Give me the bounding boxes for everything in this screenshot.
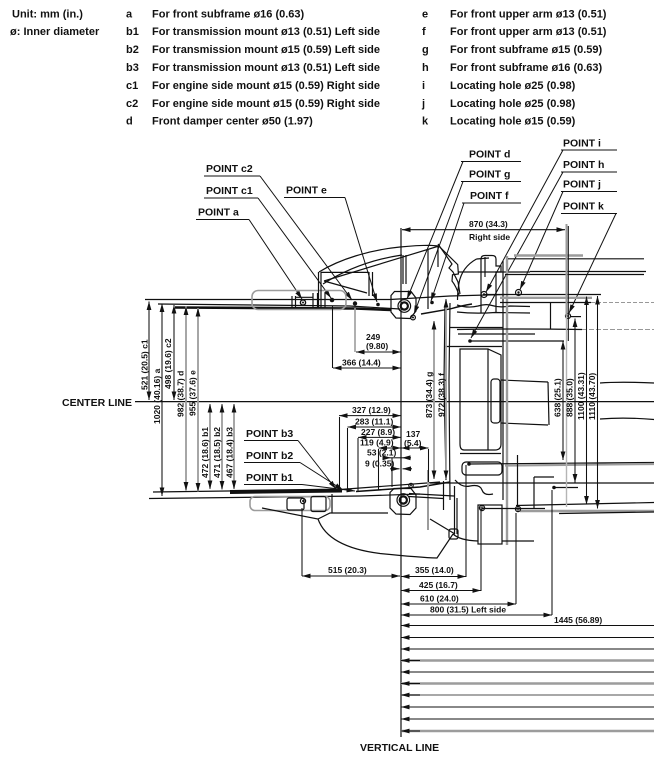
lower structure vertical 2 (456, 498, 458, 534)
dim 9 arrows (390, 468, 400, 470)
lower diagonal strut (430, 519, 455, 534)
firewall narrow box (491, 379, 500, 423)
sill line 2 (530, 271, 646, 273)
sill line 3 (505, 274, 644, 276)
floor trapezoid bottom (501, 423, 548, 425)
vertical-line grid row 9 (401, 718, 654, 720)
svg-text:i: i (422, 80, 425, 92)
lower structure vertical 1 (454, 486, 456, 534)
lower right hole 1 (479, 505, 484, 510)
bottom rail taper (356, 482, 450, 492)
point i circle (481, 292, 487, 298)
point c1 dot (330, 298, 335, 303)
rocker tick gray band (505, 464, 654, 466)
firewall vertical 2 (449, 303, 450, 500)
svg-text:888 (35.0): 888 (35.0) (565, 378, 575, 417)
damper octagon (391, 292, 416, 319)
lower foot rect (449, 529, 458, 539)
svg-text:610 (24.0): 610 (24.0) (420, 594, 459, 604)
floor trapezoid top (501, 380, 548, 382)
firewall outer vertical (502, 261, 504, 500)
svg-text:327 (12.9): 327 (12.9) (352, 405, 391, 415)
label POINT c2 (204, 163, 352, 300)
vertical line (400, 228, 402, 737)
dim 249 line (356, 351, 401, 353)
extension b3 (339, 417, 341, 489)
svg-text:472 (18.6) b1: 472 (18.6) b1 (200, 427, 210, 478)
wheel housing top (477, 258, 490, 259)
extension 119 (378, 449, 380, 490)
label POINT b1 (244, 472, 355, 491)
sill top line (508, 258, 644, 260)
vertical-line grid row 6 gray (401, 682, 654, 684)
firewall inner box (460, 349, 501, 450)
vertical-line grid row 3 (401, 648, 654, 650)
svg-text:For front subframe ø16 (0.63): For front subframe ø16 (0.63) (152, 9, 305, 21)
svg-text:h: h (422, 62, 429, 74)
firewall lower box (462, 462, 502, 475)
body fender inner curve (323, 255, 402, 284)
svg-text:982 (38.7) d: 982 (38.7) d (176, 371, 186, 417)
point j circle (516, 290, 522, 296)
apron line lower (457, 328, 582, 331)
center line (135, 401, 654, 403)
svg-text:e: e (422, 9, 428, 21)
svg-text:(9.80): (9.80) (366, 341, 388, 351)
point k circle (566, 314, 571, 319)
svg-text:POINT c1: POINT c1 (206, 185, 253, 197)
damper circle d inner (401, 302, 408, 309)
svg-text:ø: Inner diameter: ø: Inner diameter (10, 26, 100, 38)
svg-text:POINT e: POINT e (286, 185, 327, 197)
dim 1100 line (586, 297, 588, 505)
dim 873 g line (433, 321, 435, 479)
vertical-line grid row 8 (401, 706, 654, 708)
extension 53 left (391, 458, 393, 487)
dim 1445 line (401, 625, 654, 627)
label POINT i (486, 138, 617, 293)
svg-text:Locating hole ø25 (0.98): Locating hole ø25 (0.98) (450, 80, 576, 92)
dim 870 line (402, 229, 565, 231)
dim 119 line (379, 447, 402, 449)
svg-text:POINT h: POINT h (563, 159, 604, 171)
svg-text:POINT j: POINT j (563, 179, 601, 191)
floor trapezoid right (548, 382, 549, 425)
svg-text:425 (16.7): 425 (16.7) (419, 580, 458, 590)
firewall box bottom double edge (460, 453, 501, 455)
dim 1020 a line (161, 304, 163, 497)
svg-text:POINT a: POINT a (198, 207, 239, 219)
vertical-line grid row 5 (401, 671, 654, 673)
svg-text:VERTICAL LINE: VERTICAL LINE (360, 742, 439, 754)
svg-text:9 (0.35): 9 (0.35) (365, 459, 394, 469)
svg-text:a: a (126, 9, 133, 21)
label POINT c1 (204, 185, 331, 298)
label POINT g (414, 169, 521, 315)
point g circle (411, 315, 416, 320)
extension 355 (465, 465, 467, 577)
bottom bracket inner (287, 498, 304, 510)
cowl vertical 2 (437, 246, 439, 267)
bottom rail top edge (153, 482, 440, 492)
dim 521 c1 line (148, 302, 150, 401)
body wavy profile 2 (457, 312, 530, 313)
extension b2 (347, 428, 349, 490)
svg-text:For transmission mount ø13 (0.: For transmission mount ø13 (0.51) Left s… (152, 62, 380, 74)
lower structure curve to box (453, 534, 478, 541)
extension c2 for 249 (354, 308, 356, 352)
vertical-line grid row 4 gray (401, 659, 654, 661)
svg-text:POINT b2: POINT b2 (246, 450, 293, 462)
point 888 ref dot (552, 486, 556, 490)
cowl bracket inner vertical (484, 257, 486, 277)
svg-text:471 (18.5) b2: 471 (18.5) b2 (212, 427, 222, 478)
svg-text:972 (38.3) f: 972 (38.3) f (437, 373, 447, 417)
lower sill edge (430, 482, 654, 484)
point on rocker (467, 462, 471, 466)
lower corner vertical (533, 477, 535, 508)
firewall mid shelf (445, 346, 502, 348)
svg-text:For engine side mount ø15 (0.5: For engine side mount ø15 (0.59) Right s… (152, 80, 380, 92)
svg-text:Right side: Right side (469, 232, 510, 242)
svg-text:1445 (56.89): 1445 (56.89) (554, 615, 602, 625)
svg-text:For front upper arm ø13 (0.51): For front upper arm ø13 (0.51) (450, 9, 607, 21)
svg-text:521 (20.5) c1: 521 (20.5) c1 (140, 339, 150, 390)
dim 870 right extension (566, 224, 568, 316)
vertical-line grid row 10 gray (401, 730, 654, 732)
lower damper octagon (390, 489, 416, 515)
dim 1110 line (597, 296, 599, 509)
dim 283 line (348, 426, 402, 428)
extension 610 (515, 513, 517, 604)
dim 515 line (302, 575, 400, 577)
strut rod verticals (403, 255, 406, 284)
lower sill black edge (559, 512, 654, 514)
bottom rail lower edge (149, 494, 420, 499)
dim 327 line (339, 415, 401, 417)
extension 137 right (428, 449, 430, 482)
vertical-line grid row 2 (401, 637, 654, 639)
locating line i-j (484, 294, 601, 296)
svg-text:POINT k: POINT k (563, 201, 604, 213)
point c2 dot (353, 301, 357, 305)
lower right hole line (482, 508, 545, 510)
dim 498 c2 line (173, 305, 175, 400)
svg-text:b2: b2 (126, 44, 139, 56)
point e dot (376, 303, 380, 307)
bottom rail dark band (230, 491, 342, 493)
svg-text:b3: b3 (126, 62, 139, 74)
dim 955 e line (197, 308, 199, 492)
cowl vertical (427, 249, 429, 309)
extension 425 (480, 509, 482, 591)
dim 471 b2 line (221, 404, 223, 490)
svg-text:Locating hole ø15 (0.59): Locating hole ø15 (0.59) (450, 116, 576, 128)
firewall top shelf (450, 327, 503, 329)
dimensions (149, 224, 654, 731)
firewall vertical 1 (444, 305, 446, 480)
sill joint vertical (550, 302, 552, 329)
apron line right (500, 302, 591, 304)
body fender inner straight edge (324, 246, 439, 281)
top rail dark band (175, 308, 391, 311)
svg-text:366 (14.4): 366 (14.4) (342, 358, 381, 368)
svg-text:c2: c2 (126, 98, 138, 110)
svg-text:g: g (422, 44, 429, 56)
dim 610 line (401, 603, 516, 605)
top bracket (engine mount bracket) (252, 291, 346, 310)
svg-text:467 (18.4) b3: 467 (18.4) b3 (225, 427, 235, 478)
svg-text:POINT g: POINT g (469, 169, 510, 181)
lower right hole 2 (515, 506, 520, 511)
sill top gray band (514, 254, 583, 256)
lower bumps (455, 480, 493, 495)
rocker tick line (469, 463, 654, 465)
lower damper circle inner (400, 496, 407, 503)
top rail upper edge (145, 299, 390, 301)
label POINT e (284, 185, 377, 303)
rail taper right of damper (421, 304, 472, 314)
point f dot (430, 301, 434, 305)
jack column vertical (517, 455, 519, 506)
dim 227 line (358, 436, 401, 438)
lower right shelf (502, 540, 534, 542)
extension b1 (357, 438, 359, 491)
svg-text:(5.4): (5.4) (404, 438, 422, 448)
lower rail double line (409, 494, 454, 499)
strut tower post 1 (319, 272, 322, 308)
dimension texts (140, 219, 603, 625)
svg-text:b1: b1 (126, 26, 139, 38)
svg-text:Front damper center ø50 (1.97): Front damper center ø50 (1.97) (152, 116, 313, 128)
point h dot (468, 339, 472, 343)
point 888 tick (554, 487, 578, 489)
strut tower top rail (321, 271, 369, 273)
label POINT f (431, 190, 521, 301)
dim 870 extension black line (567, 226, 569, 341)
top bracket post 2 (313, 293, 318, 308)
svg-text:119 (4.9): 119 (4.9) (360, 438, 394, 448)
svg-text:355 (14.0): 355 (14.0) (415, 565, 454, 575)
svg-text:1100 (43.31): 1100 (43.31) (576, 372, 586, 420)
legend block (10, 9, 607, 128)
top bracket post 3 (324, 293, 326, 309)
svg-text:870 (34.3): 870 (34.3) (469, 219, 508, 229)
label POINT a (196, 207, 302, 300)
svg-text:955 (37.6) e: 955 (37.6) e (188, 370, 198, 416)
svg-text:498 (19.6) c2: 498 (19.6) c2 (163, 338, 173, 389)
svg-text:For engine side mount ø15 (0.5: For engine side mount ø15 (0.59) Right s… (152, 98, 380, 110)
arch right edge vertical (443, 481, 445, 510)
label POINT b2 (244, 450, 343, 490)
dim 366 line (333, 367, 401, 369)
dim 800 line (401, 614, 552, 616)
svg-text:POINT c2: POINT c2 (206, 163, 253, 175)
body fender left descender (324, 281, 367, 293)
wheel arch inner line (318, 513, 388, 519)
h reference line (470, 340, 564, 342)
lower right corner shelf (534, 476, 554, 478)
svg-text:f: f (422, 26, 426, 38)
svg-text:53 (2.1): 53 (2.1) (367, 448, 396, 458)
svg-text:For front subframe ø15 (0.59): For front subframe ø15 (0.59) (450, 44, 603, 56)
dim 137 line (401, 447, 429, 449)
cowl notch (438, 244, 460, 294)
svg-text:Locating hole ø25 (0.98): Locating hole ø25 (0.98) (450, 98, 576, 110)
rocker wavy line 1 (600, 381, 654, 384)
dim 425 line (401, 590, 481, 592)
bottom bracket hole (300, 498, 305, 503)
wheel arch outline (262, 508, 453, 558)
lower gray vertical (427, 470, 429, 530)
label POINT d (407, 149, 521, 300)
dim 53 arrows (383, 457, 391, 459)
svg-text:283 (11.1): 283 (11.1) (355, 417, 393, 427)
svg-text:800 (31.5) Left side: 800 (31.5) Left side (430, 605, 506, 615)
dim 638 line (562, 341, 564, 460)
cowl step bracket (481, 256, 501, 314)
point a circle (300, 300, 305, 305)
lower sill gray band (520, 510, 654, 512)
body wavy profile (457, 305, 530, 307)
vertical-line grid row 7 gray (401, 694, 654, 696)
lower structure box (478, 505, 502, 544)
svg-text:POINT b3: POINT b3 (246, 428, 293, 440)
extension 515 left (301, 508, 303, 576)
svg-text:515 (20.3): 515 (20.3) (328, 565, 367, 575)
arch strut vertical (331, 494, 333, 513)
svg-text:c1: c1 (126, 80, 138, 92)
firewall outer gray vertical (506, 256, 508, 545)
dim 472 b1 line (209, 404, 211, 489)
svg-text:POINT i: POINT i (563, 138, 601, 150)
svg-text:Unit: mm (in.): Unit: mm (in.) (12, 9, 83, 21)
svg-text:1110 (43.70): 1110 (43.70) (587, 373, 597, 420)
svg-text:d: d (126, 116, 133, 128)
top bracket connector (296, 296, 314, 298)
point labels (62, 138, 617, 755)
rocker wavy line 2 (600, 418, 654, 419)
dim 982 d line (185, 307, 187, 491)
dim 355 line (401, 576, 466, 578)
label POINT k (561, 201, 617, 314)
svg-text:873 (34.4) g: 873 (34.4) g (424, 372, 434, 418)
extension c1 for 366 (332, 306, 334, 368)
svg-text:POINT d: POINT d (469, 149, 510, 161)
svg-text:1020 (40.16) a: 1020 (40.16) a (152, 368, 162, 424)
lower hole (409, 483, 413, 487)
bottom bracket (250, 497, 330, 511)
svg-text:For transmission mount ø15 (0.: For transmission mount ø15 (0.59) Left s… (152, 44, 380, 56)
lower damper circle outer (397, 494, 410, 507)
svg-text:POINT b1: POINT b1 (246, 472, 293, 484)
firewall inner box divider (487, 349, 489, 450)
wheel housing curve (458, 259, 477, 300)
label POINT j (520, 179, 617, 290)
extension 800 (551, 490, 553, 615)
bottom bracket tab (311, 497, 326, 512)
point k tick (570, 316, 581, 318)
cowl ledge line (458, 271, 530, 273)
dim 972 f line (445, 299, 447, 479)
top bracket post 1 (292, 296, 296, 308)
svg-text:227 (8.9): 227 (8.9) (361, 427, 395, 437)
body fender outer curve (319, 245, 459, 295)
dim 467 b3 line (233, 404, 235, 489)
svg-text:k: k (422, 116, 429, 128)
label POINT h (471, 159, 617, 338)
damper circle d outer (398, 300, 411, 313)
svg-text:For transmission mount ø13 (0.: For transmission mount ø13 (0.51) Left s… (152, 26, 380, 38)
svg-text:638 (25.1): 638 (25.1) (553, 378, 563, 417)
top rail lower band continuation (390, 295, 505, 300)
svg-text:CENTER LINE: CENTER LINE (62, 397, 132, 409)
strut tower post 2 (369, 272, 373, 296)
top rail inner edge (158, 304, 400, 309)
locating gray band (500, 297, 592, 299)
svg-text:For front upper arm ø13 (0.51): For front upper arm ø13 (0.51) (450, 26, 607, 38)
svg-text:j: j (421, 98, 425, 110)
svg-text:POINT f: POINT f (470, 190, 509, 202)
cowl lower line (458, 333, 535, 335)
lower sill line (516, 503, 654, 506)
svg-text:For front subframe ø16 (0.63): For front subframe ø16 (0.63) (450, 62, 603, 74)
dim 888 line (574, 319, 576, 483)
label POINT b3 (244, 428, 336, 489)
